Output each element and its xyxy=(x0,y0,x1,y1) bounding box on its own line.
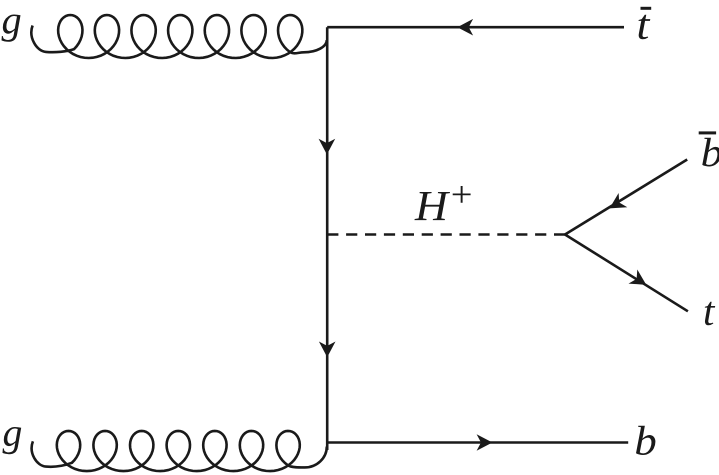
arrow on propagator upper segment xyxy=(319,139,336,155)
arrow on propagator lower segment xyxy=(319,342,336,358)
gluon g (top incoming) xyxy=(31,15,326,58)
label H+ (charged Higgs) xyxy=(414,186,470,220)
wire top-quark propagator (vertical) xyxy=(326,27,329,450)
label g (top gluon) xyxy=(1,15,20,42)
label tbar (anti-top) xyxy=(639,7,652,40)
arrow on anti-top line xyxy=(457,19,473,36)
wire anti-b outgoing (upper right) xyxy=(565,160,687,235)
label g (bottom gluon) xyxy=(3,427,22,454)
arrow on anti-b line xyxy=(610,193,628,208)
gluon g (bottom incoming) xyxy=(32,431,327,471)
label bbar (anti-b) xyxy=(699,131,719,166)
arrow on b-quark line xyxy=(477,434,493,451)
dashed charged-Higgs propagator H+ xyxy=(327,233,565,236)
wire t-quark outgoing (lower right) xyxy=(565,235,688,312)
arrow on t-quark line xyxy=(629,269,647,284)
wire b-quark outgoing (bottom horizontal) xyxy=(327,441,628,444)
label t (outgoing top quark) xyxy=(705,302,715,326)
label b (outgoing b quark) xyxy=(636,426,655,455)
wire anti-top outgoing (top horizontal) xyxy=(327,26,624,29)
